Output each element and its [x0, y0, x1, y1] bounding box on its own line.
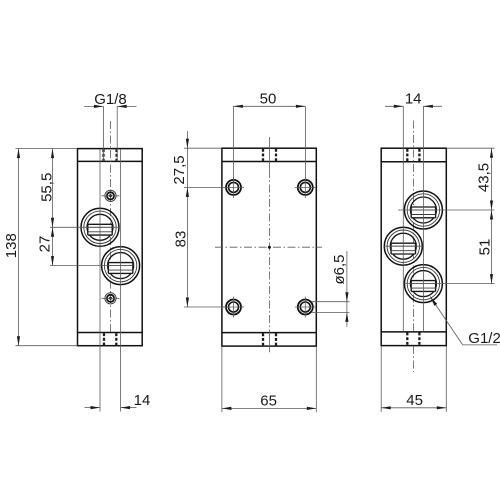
port L1 centerline extension (vertical, runs to bottom dim 14)	[99, 149, 101, 412]
middle view body outline	[222, 148, 316, 346]
port L1 (G1/4 side port upper)	[81, 208, 119, 246]
middle view horizontal centerline	[215, 246, 322, 248]
label G1/2 with leader to port RC	[430, 297, 500, 348]
dimension 51 (right view, port RA to port RC)	[476, 210, 493, 284]
screw hole bottom-right	[295, 297, 316, 318]
left view bottom band thread dashes	[104, 333, 116, 345]
dimension 14 (top of right view, port offset)	[385, 91, 442, 108]
dimension 27,5 (middle view, top edge to hole row)	[171, 131, 226, 307]
svg-text:51: 51	[476, 239, 493, 256]
port RB (middle port)	[384, 227, 422, 265]
left view top band thread dashes (G1/8 hole hidden lines)	[104, 149, 117, 161]
right view bottom band thread dashes	[407, 333, 419, 346]
dimension 45 (bottom of right view)	[381, 346, 446, 412]
port RC (lower port, G1/2)	[404, 265, 442, 303]
middle view center point	[268, 246, 271, 249]
dimension Ø6,5 (hole diameter, right of middle view)	[312, 251, 350, 327]
left view vertical centerline (dash-dot)	[110, 121, 112, 332]
dimension 14 (bottom of left view, port offset)	[85, 392, 151, 409]
dimension 83 (middle view, hole row spacing)	[173, 231, 227, 307]
middle view vertical centerline	[268, 137, 270, 352]
screw hole top-right	[295, 177, 316, 198]
port L2 horizontal centerline / extension from dim 27	[50, 265, 134, 267]
svg-text:G1/8: G1/8	[94, 91, 127, 108]
right view vertical centerline	[412, 121, 414, 373]
right view body outline	[381, 148, 446, 345]
svg-text:43,5: 43,5	[475, 163, 492, 192]
screw hole bottom-left	[223, 297, 244, 318]
svg-text:138: 138	[3, 233, 20, 258]
right view top band thread dashes	[407, 149, 419, 161]
middle view top band thread dashes	[263, 149, 276, 161]
port RA horizontal centerline / extension to dim 43,5	[398, 209, 495, 211]
svg-text:65: 65	[260, 392, 277, 409]
svg-text:27: 27	[37, 236, 54, 253]
bolt hole lower (left view)	[102, 293, 120, 304]
svg-text:14: 14	[405, 91, 422, 108]
left view body outline	[78, 149, 143, 346]
ports RA/RC vertical centerline extension (to top dim 14)	[422, 106, 424, 332]
port L1 horizontal centerline / extension from dim 27	[50, 226, 119, 228]
dimension 65 (bottom of middle view)	[222, 346, 316, 412]
dimension 50 (top of middle view, hole spacing)	[233, 91, 305, 181]
dimension 138 (far left)	[3, 149, 78, 346]
svg-text:27,5: 27,5	[171, 155, 188, 184]
bolt hole upper (left view)	[102, 190, 120, 201]
dimension 55,5 (left view upper port from top)	[38, 149, 55, 228]
svg-text:83: 83	[173, 231, 190, 248]
dimension G1/8 (top of left view)	[84, 91, 137, 161]
port L2 (G1/4 side port lower)	[102, 247, 140, 285]
svg-text:14: 14	[134, 392, 151, 409]
middle view bottom band thread dashes	[263, 333, 276, 345]
dimension 27 (between ports L1 and L2)	[37, 227, 55, 265]
svg-text:50: 50	[260, 91, 277, 108]
port RC horizontal centerline / extension to dim 51	[404, 283, 495, 285]
svg-text:45: 45	[406, 392, 423, 409]
port RA (upper port)	[404, 191, 442, 229]
svg-text:ø6,5: ø6,5	[331, 254, 348, 284]
dimension 43,5 (right view, top edge to port RA)	[446, 148, 494, 283]
port RB horizontal centerline	[384, 245, 424, 247]
screw hole top-left (Ø6,5)	[223, 177, 244, 198]
port RB vertical centerline extension (to top dim 14)	[402, 106, 404, 332]
port L2 centerline extension (vertical, runs to bottom dim 14)	[120, 149, 122, 412]
